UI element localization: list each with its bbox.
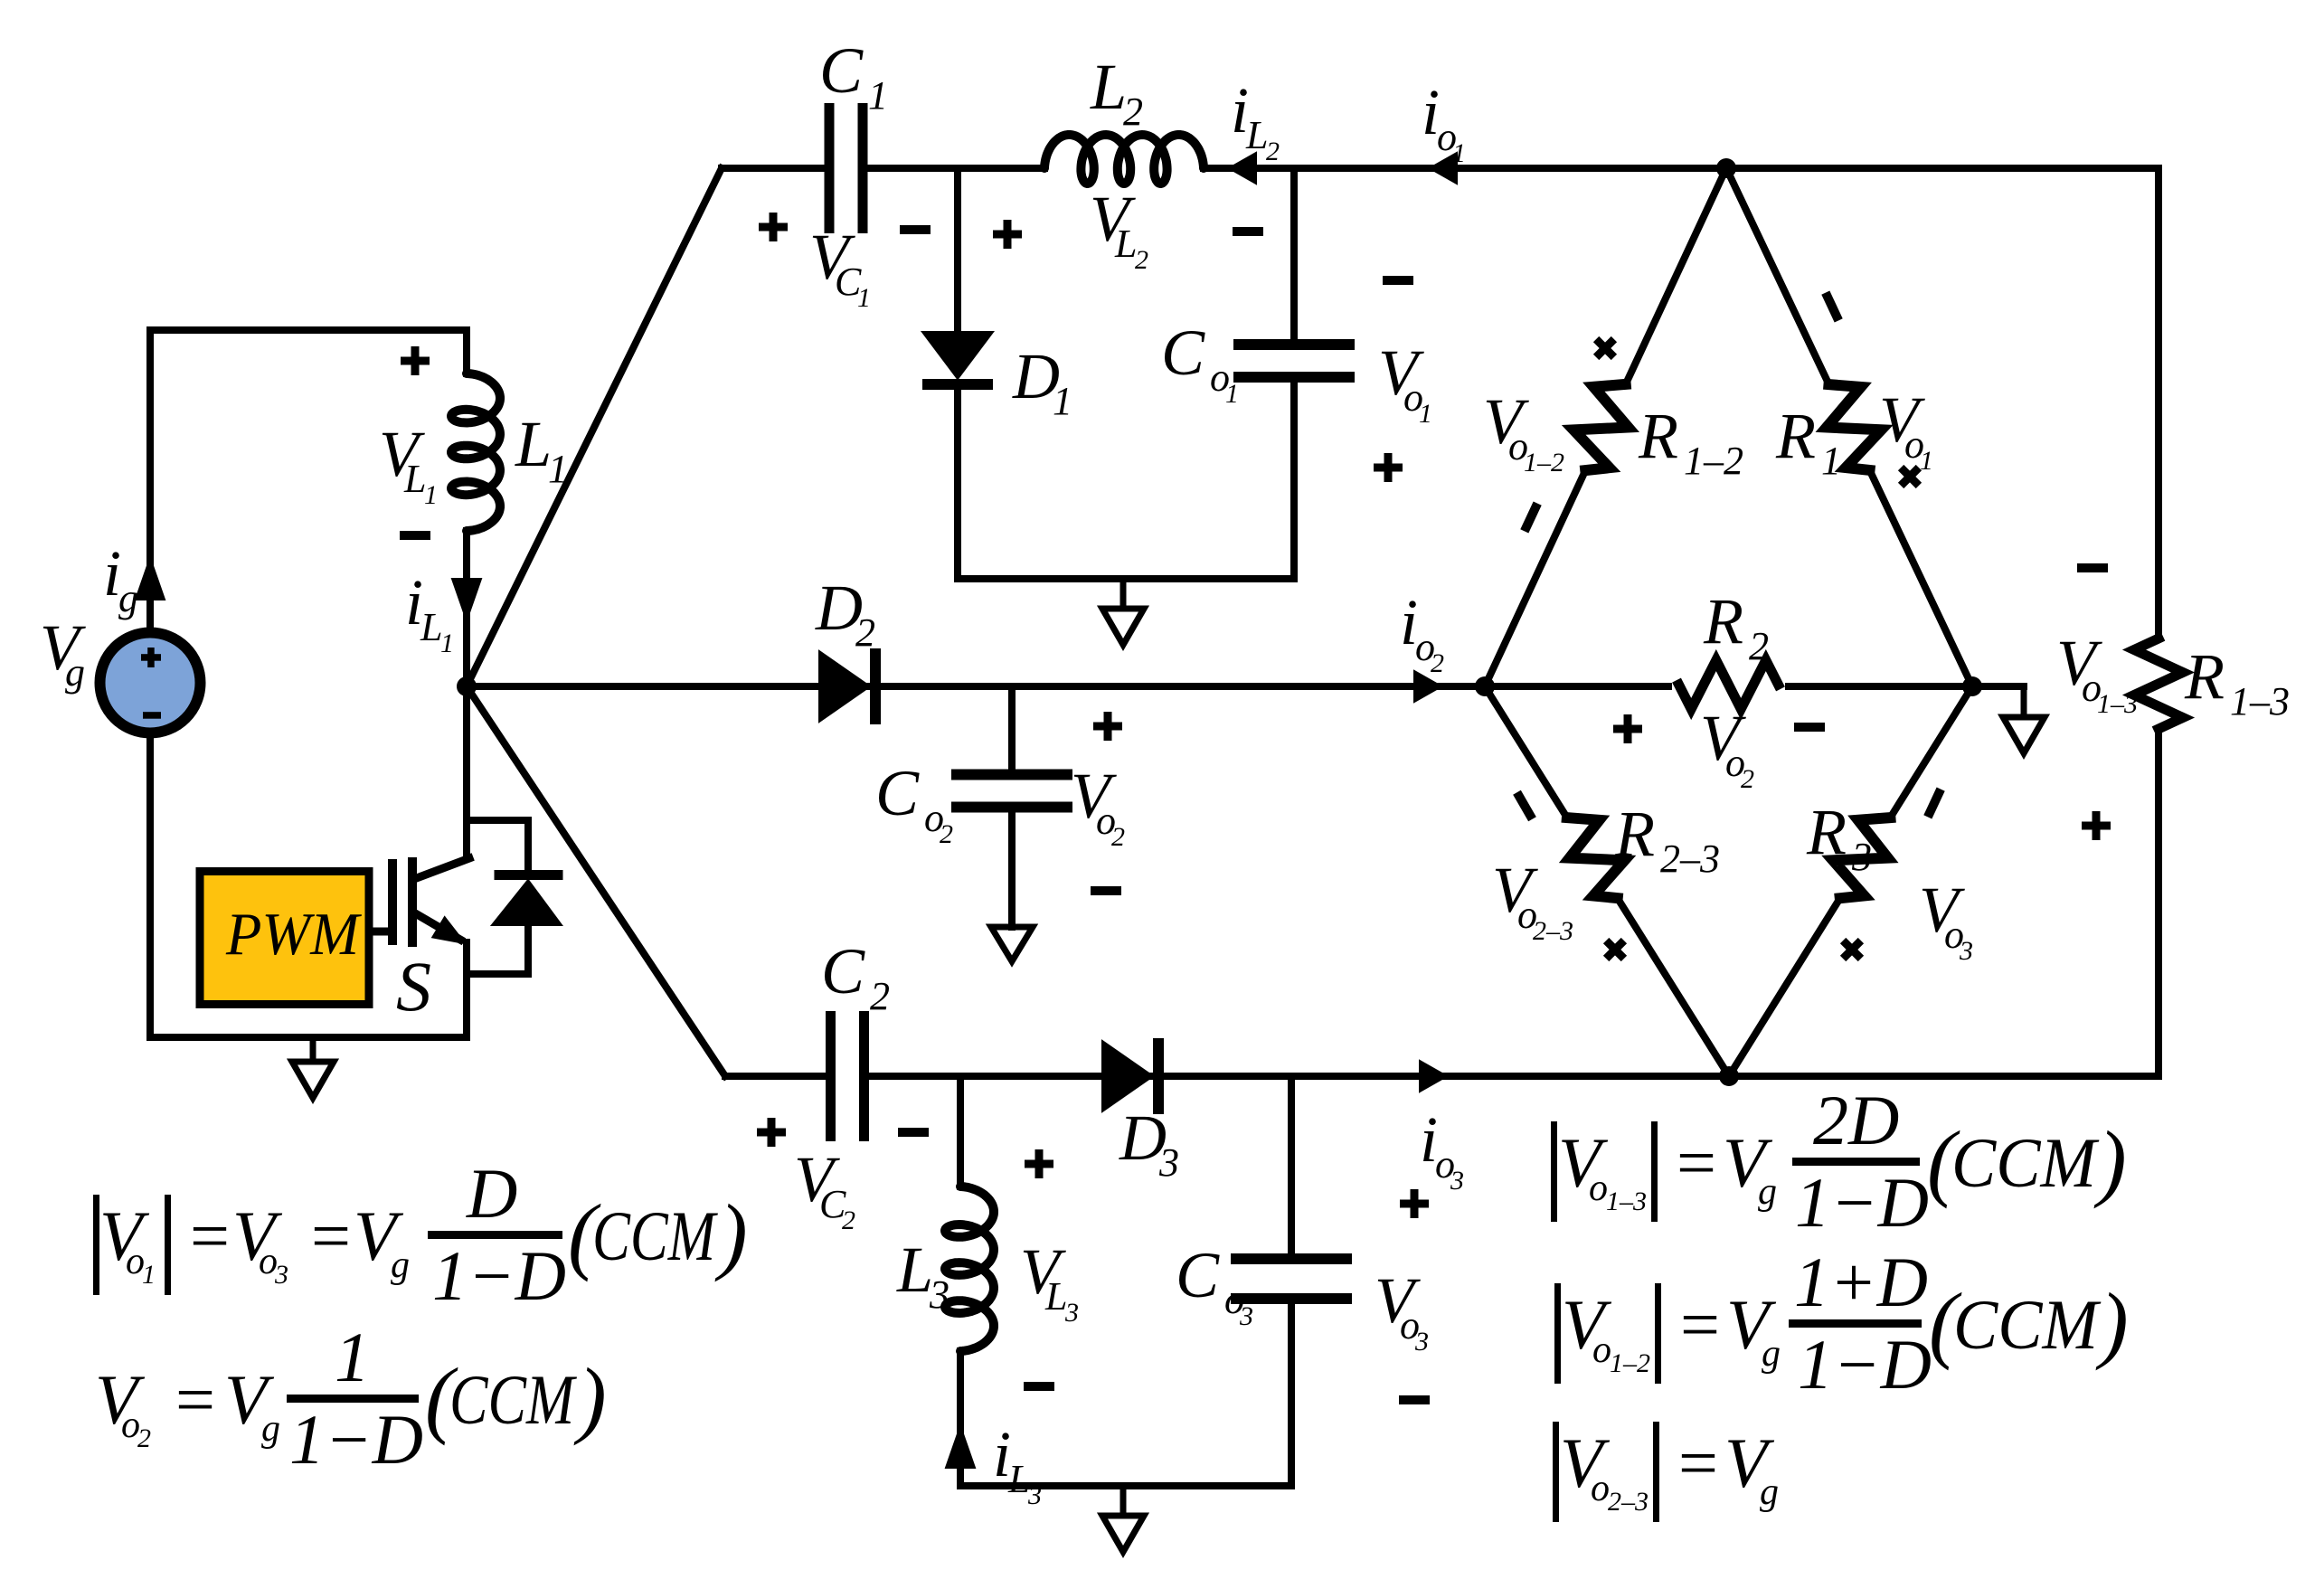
svg-text:L: L [1007, 1457, 1030, 1501]
svg-text:o: o [1589, 1168, 1608, 1209]
svg-text:2: 2 [870, 974, 890, 1018]
svg-text:3: 3 [1064, 1298, 1079, 1328]
svg-text:3: 3 [274, 1260, 288, 1290]
svg-text:3: 3 [1239, 1301, 1253, 1331]
svg-text:g: g [391, 1244, 410, 1286]
svg-text:1−D: 1−D [432, 1236, 566, 1315]
svg-text:C: C [875, 757, 920, 829]
svg-text:1: 1 [868, 73, 888, 118]
svg-text:1: 1 [1920, 446, 1933, 476]
svg-text:g: g [1760, 1471, 1779, 1513]
svg-text:R: R [1806, 796, 1847, 868]
svg-text:C: C [1176, 1239, 1220, 1311]
svg-text:2: 2 [1266, 137, 1280, 166]
svg-text:1–2: 1–2 [1524, 448, 1564, 477]
svg-text:1: 1 [142, 1260, 156, 1290]
svg-text:=: = [171, 1360, 219, 1439]
svg-text:=: = [1674, 1423, 1722, 1502]
svg-text:1: 1 [1821, 439, 1841, 483]
svg-text:2: 2 [1135, 245, 1148, 275]
svg-text:1: 1 [335, 1318, 370, 1396]
svg-text:2: 2 [137, 1423, 151, 1453]
svg-text:o: o [1591, 1468, 1610, 1509]
svg-text:L: L [403, 457, 426, 501]
svg-text:g: g [118, 576, 138, 620]
svg-text:2–3: 2–3 [1533, 916, 1573, 946]
svg-text:3: 3 [1851, 835, 1872, 879]
svg-text:=: = [1676, 1285, 1724, 1364]
svg-text:1–3: 1–3 [2097, 689, 2138, 719]
svg-text:g: g [65, 650, 85, 695]
svg-text:L: L [515, 408, 552, 480]
svg-text:2: 2 [855, 610, 875, 655]
svg-text:3: 3 [1450, 1166, 1464, 1196]
svg-text:2: 2 [1741, 764, 1754, 794]
svg-text:o: o [1592, 1329, 1611, 1371]
svg-text:CCM: CCM [1953, 1285, 2102, 1364]
svg-text:1–2: 1–2 [1610, 1348, 1650, 1378]
svg-text:2: 2 [940, 819, 953, 849]
svg-text:=: = [185, 1196, 233, 1275]
svg-text:2: 2 [1111, 822, 1125, 852]
svg-text:2: 2 [1123, 90, 1143, 134]
svg-text:CCM: CCM [1951, 1123, 2100, 1202]
svg-text:2: 2 [842, 1206, 855, 1235]
svg-text:1–3: 1–3 [2230, 679, 2290, 723]
svg-text:1–2: 1–2 [1684, 439, 1743, 483]
svg-text:): ) [2095, 1275, 2129, 1371]
svg-text:2–3: 2–3 [1660, 837, 1720, 881]
svg-text:2: 2 [1749, 624, 1769, 668]
svg-text:g: g [1762, 1333, 1781, 1375]
svg-text:3: 3 [929, 1272, 949, 1317]
svg-text:1−D: 1−D [289, 1400, 423, 1479]
svg-text:2–3: 2–3 [1608, 1487, 1649, 1517]
svg-text:1: 1 [1419, 399, 1432, 429]
svg-text:1: 1 [1225, 379, 1239, 409]
svg-text:1−D: 1−D [1798, 1325, 1932, 1404]
svg-text:C: C [1161, 317, 1205, 389]
svg-text:2D: 2D [1813, 1081, 1899, 1159]
svg-text:S: S [396, 947, 431, 1026]
svg-text:g: g [1758, 1171, 1777, 1213]
svg-text:1+D: 1+D [1794, 1243, 1928, 1321]
svg-text:L: L [1114, 222, 1137, 266]
svg-text:2: 2 [1431, 648, 1444, 678]
svg-text:=: = [307, 1196, 354, 1275]
svg-text:L: L [420, 605, 442, 649]
svg-text:R: R [2184, 640, 2225, 713]
svg-text:3: 3 [1027, 1480, 1042, 1510]
svg-text:1: 1 [424, 480, 438, 510]
svg-text:1: 1 [857, 283, 871, 313]
svg-text:PWM: PWM [225, 901, 362, 968]
svg-text:L: L [1044, 1274, 1067, 1319]
svg-text:1: 1 [1053, 379, 1072, 423]
svg-text:): ) [573, 1350, 607, 1446]
svg-text:L: L [1090, 51, 1127, 123]
svg-text:R: R [1638, 400, 1678, 472]
svg-text:1: 1 [1452, 138, 1466, 168]
svg-text:3: 3 [1414, 1327, 1429, 1357]
svg-text:1: 1 [440, 629, 454, 658]
svg-text:1: 1 [548, 447, 568, 491]
svg-text:L: L [1245, 113, 1268, 157]
svg-text:=: = [1672, 1123, 1720, 1202]
svg-text:D: D [466, 1154, 517, 1233]
svg-text:1−D: 1−D [1795, 1163, 1929, 1242]
svg-text:): ) [2093, 1113, 2127, 1209]
svg-text:R: R [1614, 798, 1655, 870]
svg-text:g: g [261, 1408, 280, 1450]
svg-text:1–3: 1–3 [1606, 1187, 1647, 1216]
svg-text:C: C [819, 34, 864, 107]
svg-text:CCM: CCM [592, 1196, 718, 1275]
svg-text:3: 3 [1959, 936, 1973, 966]
svg-text:R: R [1775, 400, 1816, 472]
svg-text:CCM: CCM [449, 1360, 577, 1439]
svg-text:3: 3 [1158, 1140, 1179, 1185]
svg-text:L: L [896, 1234, 933, 1306]
svg-text:C: C [821, 935, 865, 1007]
svg-text:): ) [714, 1187, 748, 1282]
svg-text:R: R [1703, 585, 1743, 657]
